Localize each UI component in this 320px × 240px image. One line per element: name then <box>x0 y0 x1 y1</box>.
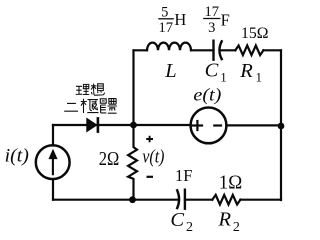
wire node B to C2 <box>133 199 179 201</box>
svg-text:1Ω: 1Ω <box>219 172 242 194</box>
diode ideal (triangle+bar) <box>87 118 98 131</box>
wire R1 to top-right corner <box>263 49 281 51</box>
label er-ji-ti (Chinese: diode) hand-drawn <box>64 98 117 113</box>
svg-text:C: C <box>205 60 219 82</box>
svg-text:15Ω: 15Ω <box>241 25 269 42</box>
node C junction dot (right rail) <box>278 123 285 130</box>
resistor R2 <box>212 195 240 205</box>
wire diode to node A <box>96 124 133 126</box>
svg-text:C: C <box>170 209 184 231</box>
label 17/3 F (C1 value) <box>203 4 230 36</box>
label li-xiang (Chinese: ideal) hand-drawn <box>76 84 105 96</box>
e(t) plus sign <box>193 121 202 130</box>
current source i(t) circle <box>36 145 70 179</box>
svg-text:2: 2 <box>186 220 193 235</box>
svg-text:1: 1 <box>256 70 263 85</box>
wire R2 to bottom-right corner <box>240 199 281 201</box>
wire bottom rail: left to node B <box>53 199 133 201</box>
wire right vertical <box>280 50 282 200</box>
svg-text:R: R <box>239 60 253 82</box>
label R2 <box>218 209 240 235</box>
resistor 2-ohm vertical <box>128 125 137 200</box>
capacitor C2 <box>177 190 185 209</box>
wire top rail left segment <box>134 49 148 51</box>
resistor R1 <box>235 46 263 56</box>
svg-text:3: 3 <box>208 20 215 36</box>
label C2 <box>170 209 193 235</box>
svg-text:17: 17 <box>159 20 174 36</box>
current source arrow <box>49 150 57 174</box>
label v(t) minus <box>147 176 154 178</box>
wire e(t) to right rail <box>226 124 281 126</box>
voltage source e(t) circle <box>191 108 227 144</box>
wire top-left vertical (node A down to middle rail) <box>132 50 134 125</box>
svg-text:F: F <box>221 10 230 29</box>
wire left vertical above source <box>52 125 54 146</box>
node B junction dot <box>129 196 136 203</box>
wire C1 to R1 <box>220 49 236 51</box>
wire node A to e(t) <box>134 124 191 126</box>
svg-text:17: 17 <box>205 4 220 20</box>
label R1 <box>239 60 262 85</box>
label v(t) plus <box>146 136 153 143</box>
svg-text:v(t): v(t) <box>142 146 164 167</box>
svg-text:5: 5 <box>161 4 168 20</box>
svg-text:1: 1 <box>220 70 227 85</box>
label C1 <box>205 60 227 85</box>
svg-text:2: 2 <box>233 220 240 235</box>
wire middle rail: source corner to diode <box>53 124 88 126</box>
svg-text:H: H <box>174 10 186 29</box>
label 5/17 H (inductor value) <box>158 4 186 36</box>
svg-text:i(t): i(t) <box>5 145 29 166</box>
inductor L <box>147 43 191 51</box>
wire inductor to C1 <box>191 49 214 51</box>
wire C2 to R2 <box>185 199 212 201</box>
svg-text:1F: 1F <box>175 166 192 185</box>
svg-text:R: R <box>218 209 232 231</box>
svg-text:e(t): e(t) <box>193 85 221 106</box>
e(t) minus sign <box>214 124 221 126</box>
wire left vertical below source <box>52 179 54 200</box>
node A junction dot <box>130 122 137 129</box>
svg-text:L: L <box>164 60 176 82</box>
capacitor C1 <box>214 41 222 60</box>
svg-text:2Ω: 2Ω <box>99 148 120 170</box>
